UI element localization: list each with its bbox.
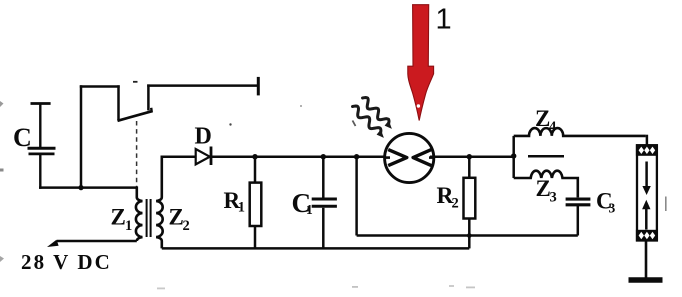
wire: left vertical rail of vibrator	[80, 85, 83, 189]
svg-text:1: 1	[436, 4, 452, 36]
svg-text:D: D	[195, 124, 212, 150]
label R2	[437, 183, 459, 212]
wire: vibrator top-right horizontal	[147, 84, 258, 87]
wire: middle-left horizontal (cap to transformer)	[39, 186, 137, 189]
svg-text:Z: Z	[111, 205, 126, 230]
resistor R1	[250, 157, 262, 249]
label Z4	[535, 106, 556, 135]
wire: vibrator top-left horizontal	[80, 85, 120, 88]
svg-text:C: C	[13, 123, 32, 152]
transducer body	[636, 144, 658, 241]
wire: bottom rail	[162, 247, 470, 250]
transducer down arrow	[642, 162, 650, 196]
node R2 top	[467, 154, 472, 159]
label Z1	[111, 205, 133, 235]
capacitor C terminal bar	[31, 102, 51, 105]
label I tick	[665, 197, 667, 212]
svg-text:1: 1	[238, 200, 245, 216]
capacitor C3	[566, 199, 591, 235]
terminal bar	[257, 77, 260, 96]
coupling bar	[528, 155, 564, 158]
label R1	[224, 188, 246, 216]
node R2 bottom crossing	[467, 233, 472, 238]
svg-text:1: 1	[306, 202, 313, 217]
diode D	[196, 147, 211, 166]
svg-text:4: 4	[549, 119, 556, 135]
vibrator right contact post	[147, 84, 150, 110]
vibrator actuation dashed link	[136, 121, 138, 199]
wire: lamp-left tap down	[355, 157, 358, 236]
label C1	[292, 188, 314, 218]
svg-text:28 V DC: 28 V DC	[21, 250, 112, 274]
wire: Z4 to transducer	[646, 135, 649, 147]
wire: 28V feed with arrow	[47, 240, 137, 247]
inductor Z4	[514, 128, 646, 136]
wire: LC branch vertical	[512, 136, 515, 178]
flash lamp V1	[385, 133, 434, 182]
svg-text:2: 2	[452, 196, 459, 212]
radiation tick	[353, 121, 356, 127]
wire: top rail diode to lamp	[211, 155, 389, 158]
capacitor C1	[312, 157, 337, 249]
label C3	[596, 189, 616, 216]
svg-text:3: 3	[609, 201, 616, 216]
node C1 top	[321, 154, 326, 159]
label Z2	[169, 205, 190, 235]
transformer core	[147, 199, 151, 237]
capacitor C top lead wire	[39, 104, 41, 148]
vibrator left bracket	[117, 85, 120, 120]
node LC input	[511, 153, 516, 158]
vibrator gap mark	[133, 81, 138, 83]
capacitor C bottom lead wire	[39, 155, 41, 189]
speck	[229, 123, 231, 125]
transducer up arrow	[642, 200, 650, 230]
svg-text:1: 1	[125, 218, 132, 234]
transformer primary Z1	[136, 186, 143, 241]
svg-text:2: 2	[183, 218, 190, 234]
junction	[78, 185, 83, 190]
node R1 top	[252, 154, 257, 159]
radiation squiggle 1	[353, 106, 384, 138]
node lamp-left tap	[354, 154, 359, 159]
resistor R2	[464, 157, 476, 249]
speck	[300, 105, 302, 107]
wire: top rail lamp to LC network	[430, 155, 514, 158]
pointer arrow 1 (red)	[408, 5, 434, 121]
edge artifact marks	[0, 101, 475, 289]
inductor Z3	[514, 171, 578, 198]
svg-text:3: 3	[550, 190, 557, 206]
vibrator reed blade	[118, 108, 153, 121]
wire: transducer to ground	[645, 241, 648, 280]
wire: middle return rail	[357, 234, 578, 237]
wire: top rail from Z2 to diode	[161, 155, 196, 158]
label Z3	[536, 176, 557, 206]
ground	[629, 277, 663, 283]
radiation squiggle 2	[363, 98, 392, 129]
transformer secondary Z2	[156, 156, 163, 249]
capacitor C plates	[28, 148, 56, 154]
